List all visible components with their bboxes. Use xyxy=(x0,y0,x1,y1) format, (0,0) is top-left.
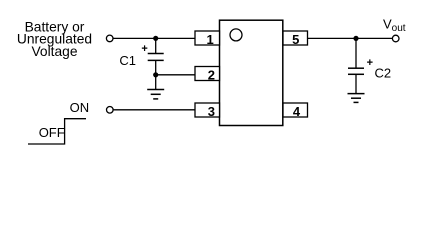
svg-text:3: 3 xyxy=(208,104,215,119)
svg-text:ON: ON xyxy=(70,100,90,115)
svg-text:5: 5 xyxy=(292,32,299,47)
svg-text:OFF: OFF xyxy=(39,125,65,140)
svg-text:4: 4 xyxy=(293,104,301,119)
svg-text:Voltage: Voltage xyxy=(31,44,77,59)
svg-text:+: + xyxy=(141,43,147,55)
svg-text:2: 2 xyxy=(208,68,215,83)
svg-text:1: 1 xyxy=(207,32,214,47)
svg-text:C2: C2 xyxy=(375,66,392,81)
svg-text:+: + xyxy=(367,57,373,69)
svg-text:C1: C1 xyxy=(119,53,136,68)
